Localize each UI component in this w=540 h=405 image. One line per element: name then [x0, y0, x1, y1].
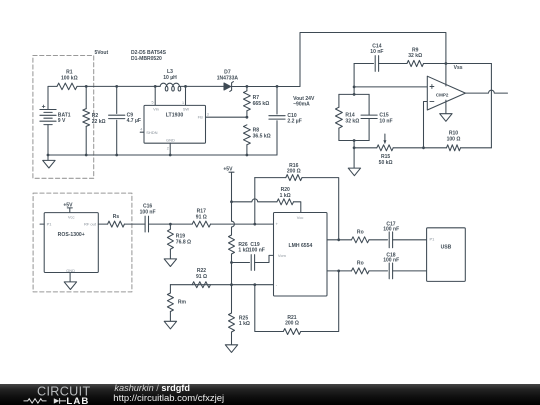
- diode D7 zener: [217, 70, 239, 92]
- wire battery to ground rail: [47, 125, 49, 155]
- resistor Ro top: [352, 229, 370, 242]
- wire plus input: [354, 86, 427, 88]
- wire out1: [327, 239, 352, 241]
- capacitor C15: [361, 94, 393, 140]
- wire SHDN stub pin 4: [140, 131, 144, 133]
- node junction plus input: [253, 223, 256, 226]
- inductor L3: [155, 69, 185, 91]
- wire C14 to R9: [379, 63, 407, 65]
- node junction minus input R21: [253, 283, 256, 286]
- wire RC tank bottom bar: [339, 140, 369, 142]
- resistor R22: [192, 268, 210, 288]
- node junction R15 left: [353, 146, 356, 149]
- ground symbol R25: [225, 345, 237, 353]
- svg-text:1 kΩ: 1 kΩ: [239, 321, 250, 327]
- wire 24V rail up and over to Vss: [300, 33, 446, 87]
- wire FB to divider: [206, 116, 247, 118]
- svg-text:LAB: LAB: [66, 396, 89, 405]
- wire battery to R1: [48, 86, 57, 109]
- svg-text:Vcm: Vcm: [278, 253, 287, 258]
- svg-text:91 Ω: 91 Ω: [196, 274, 207, 280]
- wire R9 to right corner: [424, 63, 492, 65]
- svg-text:22 kΩ: 22 kΩ: [92, 119, 106, 125]
- dashed enclosure battery source: [33, 56, 94, 179]
- capacitor C16: [140, 204, 156, 232]
- resistor R10: [424, 131, 492, 151]
- svg-text:91 Ω: 91 Ω: [196, 214, 207, 220]
- power flag +5V ROS: [63, 202, 73, 212]
- footer bar: [0, 384, 540, 405]
- svg-text:100 nF: 100 nF: [249, 248, 265, 254]
- wire ROS GND pin: [69, 273, 71, 282]
- svg-text:Rs: Rs: [113, 214, 120, 220]
- wire top rail R1 to L3: [77, 85, 160, 87]
- ground symbol CMP2: [440, 114, 452, 122]
- resistor R8: [244, 125, 271, 155]
- svg-text:1 kΩ: 1 kΩ: [238, 248, 249, 254]
- resistor R1: [57, 70, 78, 90]
- node junction R7-R8-FB: [246, 116, 249, 119]
- op-amp CMP2: [427, 76, 465, 110]
- svg-text:RF out: RF out: [84, 222, 97, 227]
- wire ground rail: [48, 154, 277, 156]
- ground symbol Rm: [164, 321, 176, 329]
- svg-text:200 Ω: 200 Ω: [285, 321, 299, 327]
- wire Ro to C18: [369, 270, 388, 272]
- svg-text:Vcc: Vcc: [68, 215, 75, 220]
- capacitor C19: [249, 242, 265, 271]
- svg-text:3: 3: [207, 113, 209, 117]
- wire tank stem: [353, 141, 355, 148]
- svg-text:FB: FB: [198, 114, 203, 119]
- node junction C19 tap: [230, 261, 233, 264]
- svg-text:ROS-1300+: ROS-1300+: [58, 232, 85, 238]
- wire C17 to USB: [393, 239, 427, 241]
- svg-text:665 kΩ: 665 kΩ: [253, 101, 270, 107]
- node junction R20 tap: [230, 200, 233, 203]
- svg-text:5Vout: 5Vout: [95, 50, 109, 56]
- wire minus rail: [170, 284, 273, 286]
- wire R16 to plus input: [254, 178, 256, 225]
- wire bias to minus rail: [231, 263, 233, 285]
- node junction Vss: [445, 62, 448, 65]
- resistor R14: [336, 94, 360, 140]
- svg-text:2.2 µF: 2.2 µF: [287, 119, 301, 125]
- svg-text:GND: GND: [66, 268, 75, 273]
- node junction ground-R8: [246, 154, 249, 157]
- wire RC tank top bar: [339, 93, 369, 95]
- resistor R21: [255, 271, 339, 335]
- capacitor C17: [383, 222, 399, 248]
- wire P1 stub: [40, 223, 44, 225]
- node junction CMP2 plus input: [353, 86, 356, 89]
- node junction C9-top: [115, 85, 118, 88]
- wire RF out to Rs: [98, 223, 107, 225]
- resistor R17: [192, 209, 210, 228]
- svg-text:http://circuitlab.com/cfxzjej: http://circuitlab.com/cfxzjej: [113, 393, 224, 404]
- resistor R7: [244, 86, 270, 117]
- svg-text:1 kΩ: 1 kΩ: [280, 193, 291, 199]
- svg-text:5: 5: [152, 101, 154, 105]
- node junction ground-C9: [115, 154, 118, 157]
- ground symbol main: [43, 155, 55, 168]
- node junction Vin-pin: [154, 85, 157, 88]
- svg-text:50 kΩ: 50 kΩ: [379, 160, 393, 166]
- node junction out2: [337, 270, 340, 273]
- op-amp U3 LMH 6554 body: [274, 213, 328, 297]
- svg-text:Ro: Ro: [357, 229, 364, 235]
- resistor R25: [229, 285, 250, 345]
- wire L3 to D7: [186, 85, 225, 87]
- wire GND pin 2: [169, 143, 171, 155]
- svg-text:Vcc: Vcc: [297, 215, 304, 220]
- resistor R16: [255, 163, 339, 240]
- wire C18 to USB: [393, 270, 427, 272]
- op-amp U1 LT1930 body: [140, 101, 209, 151]
- svg-text:100 kΩ: 100 kΩ: [61, 75, 78, 81]
- wire D7 to corner: [232, 86, 300, 88]
- svg-text:32 kΩ: 32 kΩ: [408, 53, 422, 59]
- wire R17 to plus node: [211, 223, 274, 225]
- node junction out1: [337, 238, 340, 241]
- connector P1 USB body: [427, 228, 466, 282]
- svg-text:SW: SW: [183, 107, 190, 112]
- node junction R19 tap: [169, 223, 172, 226]
- svg-text:9 V: 9 V: [58, 118, 66, 124]
- svg-text:kashurkin / srdgfd: kashurkin / srdgfd: [114, 383, 190, 393]
- wire Rs to C16: [124, 223, 145, 225]
- resistor R26: [229, 235, 250, 263]
- wire minus input vertical: [424, 102, 428, 148]
- node junction C10-top: [276, 85, 279, 88]
- svg-text:GND: GND: [166, 138, 175, 143]
- resistor Rs: [108, 214, 125, 227]
- svg-text:1: 1: [182, 101, 184, 105]
- wire SW pin: [185, 86, 187, 105]
- wire CMP2 output with hop: [465, 90, 507, 93]
- svg-text:100 nF: 100 nF: [383, 257, 399, 263]
- wire CMP2 V+ pin: [445, 64, 447, 87]
- svg-text:1N4733A: 1N4733A: [217, 75, 239, 81]
- resistor R20: [232, 187, 301, 212]
- wire Ro to C17: [369, 239, 388, 241]
- capacitor C9: [109, 86, 141, 155]
- svg-text:36.5 kΩ: 36.5 kΩ: [253, 133, 271, 139]
- node junction SW-pin: [184, 85, 187, 88]
- svg-text:10 µH: 10 µH: [163, 75, 177, 81]
- svg-text:Ro: Ro: [357, 261, 364, 267]
- svg-text:10 nF: 10 nF: [370, 49, 383, 55]
- svg-text:Vin: Vin: [153, 107, 159, 112]
- resistor Ro bottom: [352, 261, 370, 274]
- capacitor C14: [370, 43, 383, 71]
- svg-text:LT1930: LT1930: [166, 113, 184, 119]
- svg-text:~90mA: ~90mA: [293, 101, 310, 107]
- logo diode glyph: [54, 398, 60, 403]
- wire CMP2 V- pin: [445, 100, 447, 114]
- svg-text:P1: P1: [47, 222, 53, 227]
- svg-text:CMP2: CMP2: [436, 92, 449, 97]
- node junction R2-top: [85, 85, 88, 88]
- node junction ground-battery: [47, 154, 50, 157]
- svg-text:32 kΩ: 32 kΩ: [345, 118, 359, 124]
- svg-text:LMH 6554: LMH 6554: [289, 243, 313, 249]
- capacitor C18: [383, 252, 399, 278]
- svg-text:USB: USB: [441, 244, 452, 250]
- wire Vss vertical to R10: [490, 64, 492, 148]
- svg-text:100 nF: 100 nF: [383, 227, 399, 233]
- wire C14 branch down: [353, 64, 355, 95]
- node junction R7-top: [246, 85, 249, 88]
- resistor Rm: [167, 285, 186, 322]
- resistor R2: [83, 86, 106, 155]
- resistor R9: [407, 48, 424, 67]
- wire Vin pin: [154, 86, 156, 105]
- wire bias vertical with hop: [232, 202, 235, 235]
- node junction minus rail bias: [230, 283, 233, 286]
- ground symbol R19: [164, 259, 176, 267]
- resistor R19: [167, 224, 191, 259]
- node junction tank top: [353, 93, 356, 96]
- svg-text:200 Ω: 200 Ω: [287, 169, 301, 175]
- wire C19 left: [232, 262, 250, 264]
- ground symbol tank: [348, 148, 360, 176]
- svg-text:100 Ω: 100 Ω: [447, 136, 461, 142]
- svg-text:76.8 Ω: 76.8 Ω: [176, 239, 191, 245]
- svg-text:4.7 µF: 4.7 µF: [127, 118, 141, 124]
- wire C19 to Vcm: [255, 255, 274, 262]
- svg-text:Rm: Rm: [178, 300, 187, 306]
- wire Vss rail left segment: [354, 63, 373, 65]
- logo CircuitLab: [37, 384, 91, 405]
- svg-text:D1-MBR0520: D1-MBR0520: [131, 56, 162, 62]
- svg-text:P1: P1: [430, 237, 436, 242]
- power flag +5V bias: [223, 167, 234, 202]
- capacitor C10: [269, 86, 302, 155]
- svg-text:10 nF: 10 nF: [379, 118, 392, 124]
- potentiometer R15: [354, 134, 423, 166]
- node junction tank bottom: [353, 139, 356, 142]
- svg-text:4: 4: [140, 128, 142, 132]
- svg-text:SHDN: SHDN: [146, 130, 157, 135]
- battery BAT1: [40, 105, 71, 125]
- wire C16 to R17: [149, 223, 193, 225]
- svg-text:2: 2: [167, 146, 169, 150]
- node junction ground-LT1930: [169, 154, 172, 157]
- node junction ground-R2: [85, 154, 88, 157]
- svg-text:Vss: Vss: [454, 65, 463, 71]
- op-amp U2 ROS-1300+ body: [44, 213, 98, 273]
- wire out2: [327, 270, 352, 272]
- dashed enclosure RF source: [33, 193, 132, 292]
- svg-text:100 nF: 100 nF: [140, 209, 156, 215]
- ground symbol ROS: [64, 282, 76, 290]
- node junction minus-R10: [422, 146, 425, 149]
